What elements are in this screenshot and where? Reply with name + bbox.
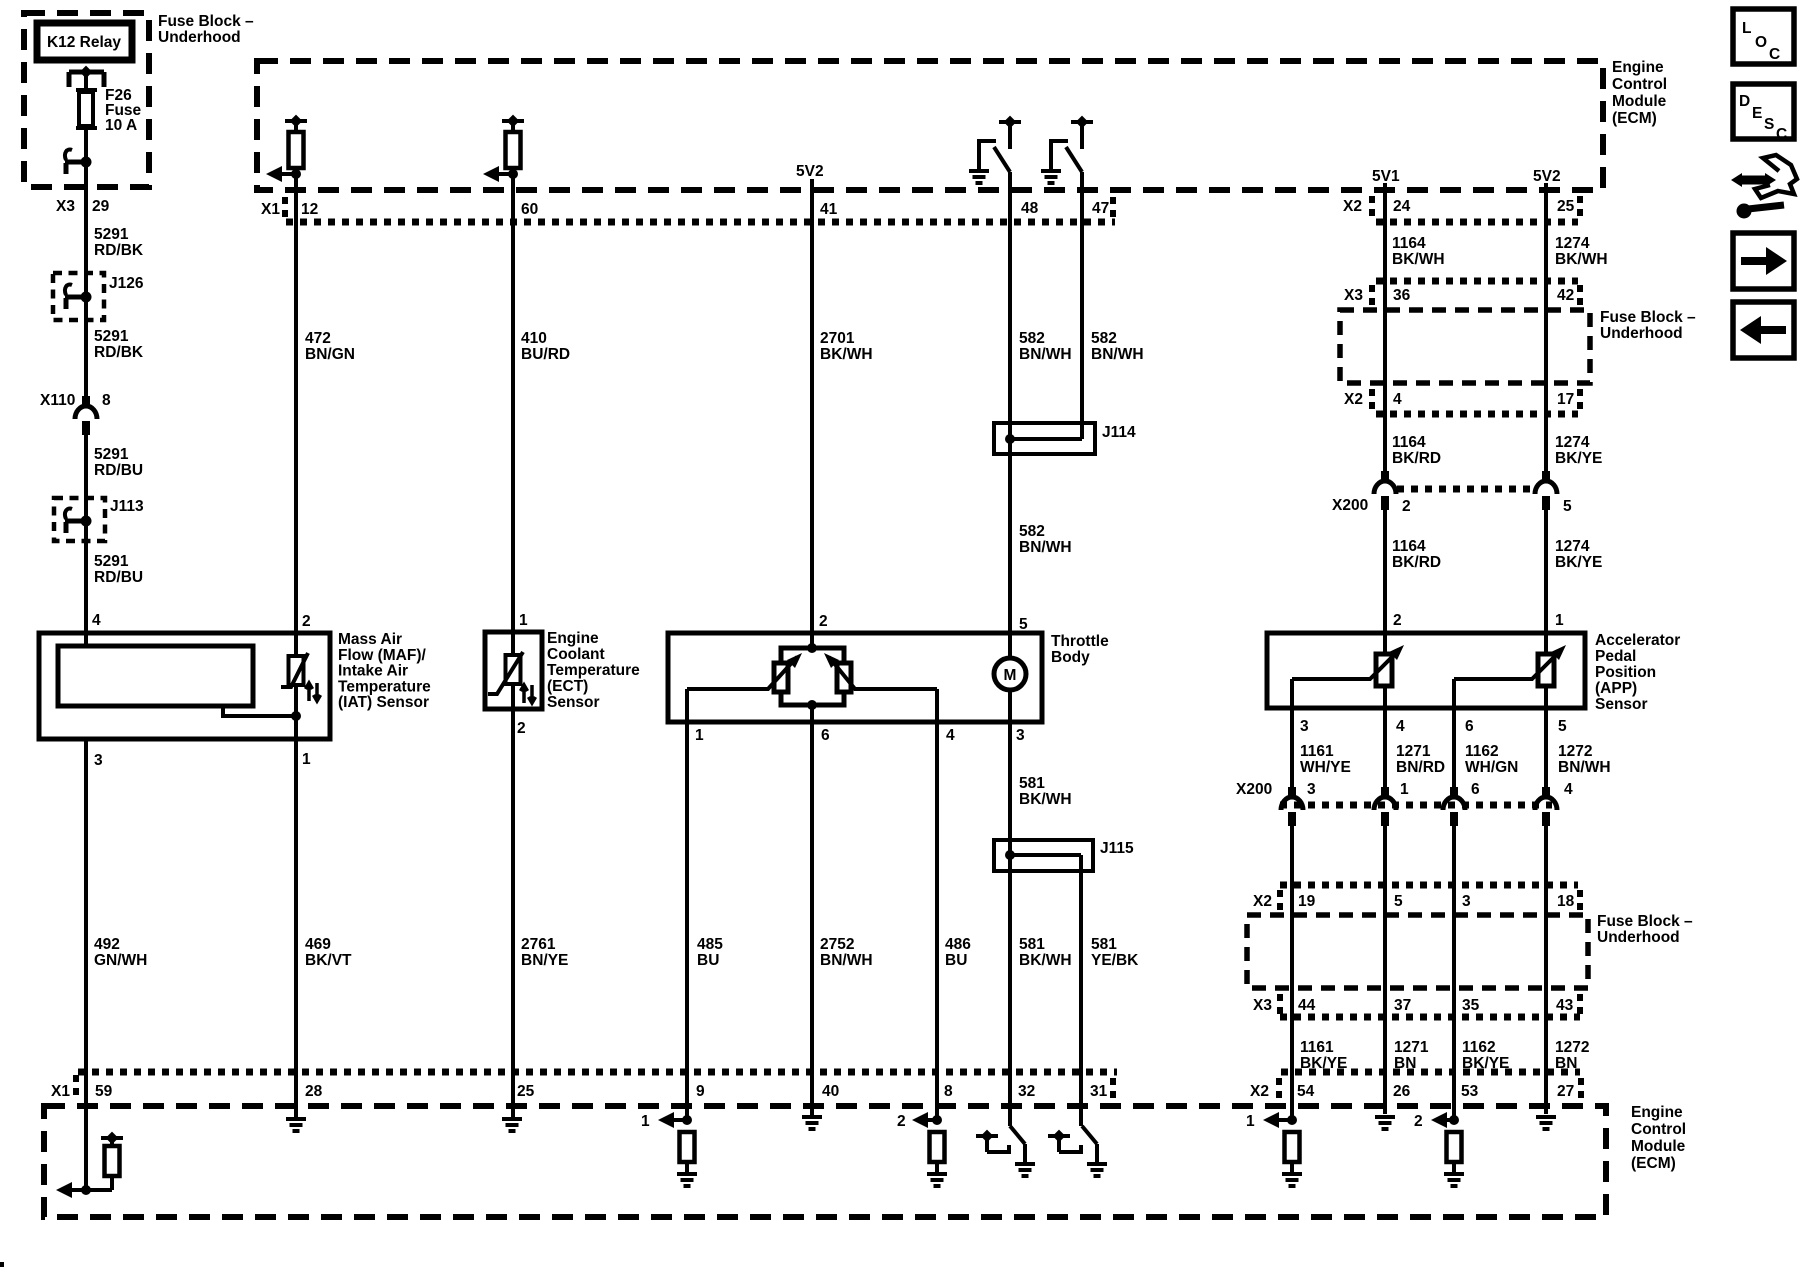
svg-text:GN/WH: GN/WH [94,952,147,969]
svg-text:1272: 1272 [1555,1039,1589,1056]
svg-text:Throttle: Throttle [1051,633,1109,650]
svg-text:J126: J126 [109,275,144,292]
svg-text:6: 6 [821,727,830,744]
svg-text:582: 582 [1019,330,1045,347]
svg-text:28: 28 [305,1083,323,1100]
svg-text:492: 492 [94,936,120,953]
svg-text:Flow (MAF)/: Flow (MAF)/ [338,647,427,664]
svg-text:1: 1 [519,612,528,629]
svg-text:40: 40 [822,1083,839,1100]
svg-text:5291: 5291 [94,226,129,243]
svg-text:BK/WH: BK/WH [1555,251,1608,268]
svg-text:Sensor: Sensor [1595,696,1648,713]
svg-text:J114: J114 [1102,424,1136,441]
svg-text:Underhood: Underhood [1600,325,1683,342]
svg-text:WH/YE: WH/YE [1300,759,1351,776]
svg-text:8: 8 [944,1083,953,1100]
svg-text:J115: J115 [1100,840,1134,857]
svg-text:Body: Body [1051,649,1090,666]
svg-text:X200: X200 [1332,497,1368,514]
svg-text:X2: X2 [1343,198,1362,215]
svg-text:BK/WH: BK/WH [1019,952,1072,969]
svg-text:1162: 1162 [1465,743,1499,760]
svg-text:2: 2 [1414,1113,1423,1130]
svg-text:J113: J113 [110,498,144,515]
svg-text:3: 3 [1462,893,1471,910]
svg-text:27: 27 [1557,1083,1574,1100]
svg-text:K12 Relay: K12 Relay [47,34,121,51]
svg-text:1274: 1274 [1555,235,1590,252]
svg-text:RD/BU: RD/BU [94,462,143,479]
svg-text:BU: BU [945,952,967,969]
svg-text:25: 25 [517,1083,535,1100]
svg-text:1164: 1164 [1392,434,1426,451]
svg-text:26: 26 [1393,1083,1411,1100]
svg-text:BN/GN: BN/GN [305,346,355,363]
svg-text:5V2: 5V2 [1533,168,1561,185]
svg-text:Fuse Block –: Fuse Block – [1600,309,1696,326]
svg-text:60: 60 [521,201,538,218]
svg-text:9: 9 [696,1083,705,1100]
svg-text:4: 4 [1393,391,1402,408]
svg-text:54: 54 [1297,1083,1315,1100]
svg-text:YE/BK: YE/BK [1091,952,1139,969]
svg-text:472: 472 [305,330,331,347]
svg-text:2: 2 [819,613,828,630]
svg-text:3: 3 [1300,718,1309,735]
svg-text:BU/RD: BU/RD [521,346,570,363]
svg-text:(ECM): (ECM) [1631,1155,1676,1172]
svg-text:3: 3 [1016,727,1025,744]
svg-text:BN/WH: BN/WH [1019,539,1072,556]
svg-text:5: 5 [1019,616,1028,633]
svg-text:BK/VT: BK/VT [305,952,352,969]
svg-text:53: 53 [1461,1083,1479,1100]
svg-text:2: 2 [1402,498,1411,515]
svg-text:BN/RD: BN/RD [1396,759,1445,776]
svg-text:X2: X2 [1344,391,1363,408]
svg-text:Control: Control [1612,76,1667,93]
svg-text:BK/YE: BK/YE [1555,450,1602,467]
svg-text:S: S [1764,116,1774,133]
svg-text:1: 1 [1555,612,1564,629]
svg-text:X3: X3 [56,198,75,215]
svg-text:25: 25 [1557,198,1575,215]
svg-text:1: 1 [1400,781,1409,798]
svg-text:X1: X1 [261,201,280,218]
svg-text:5V2: 5V2 [796,163,824,180]
svg-text:RD/BU: RD/BU [94,569,143,586]
svg-text:Underhood: Underhood [1597,929,1680,946]
svg-text:1271: 1271 [1394,1039,1429,1056]
svg-text:2701: 2701 [820,330,855,347]
svg-text:59: 59 [95,1083,113,1100]
svg-text:1161: 1161 [1300,743,1334,760]
svg-text:(APP): (APP) [1595,680,1637,697]
svg-text:5291: 5291 [94,446,129,463]
svg-text:1274: 1274 [1555,434,1590,451]
svg-text:X3: X3 [1253,997,1272,1014]
svg-text:X2: X2 [1250,1083,1269,1100]
svg-text:E: E [1752,105,1762,122]
svg-text:17: 17 [1557,391,1574,408]
svg-text:D: D [1739,93,1750,110]
svg-text:582: 582 [1091,330,1117,347]
svg-text:47: 47 [1092,200,1109,217]
svg-text:Module: Module [1612,93,1667,110]
svg-text:1162: 1162 [1462,1039,1496,1056]
svg-text:35: 35 [1462,997,1480,1014]
svg-text:410: 410 [521,330,547,347]
svg-text:2: 2 [1393,612,1402,629]
svg-text:6: 6 [1471,781,1480,798]
svg-text:5: 5 [1563,498,1572,515]
svg-text:Temperature: Temperature [547,662,640,679]
svg-text:X110: X110 [40,392,75,409]
svg-text:BK/RD: BK/RD [1392,450,1441,467]
svg-text:582: 582 [1019,523,1045,540]
svg-text:BK/RD: BK/RD [1392,554,1441,571]
svg-text:(ECT): (ECT) [547,678,588,695]
svg-text:1164: 1164 [1392,235,1426,252]
svg-text:BK/YE: BK/YE [1555,554,1602,571]
svg-text:4: 4 [1564,781,1573,798]
svg-text:1164: 1164 [1392,538,1426,555]
svg-text:Mass Air: Mass Air [338,631,402,648]
svg-text:M: M [1004,667,1017,684]
svg-text:2: 2 [302,613,311,630]
svg-text:X200: X200 [1236,781,1272,798]
svg-text:Pedal: Pedal [1595,648,1636,665]
svg-text:24: 24 [1393,198,1411,215]
svg-text:1161: 1161 [1300,1039,1334,1056]
svg-text:469: 469 [305,936,331,953]
svg-text:BK/WH: BK/WH [1392,251,1445,268]
svg-text:C: C [1776,126,1787,143]
svg-text:5V1: 5V1 [1372,168,1400,185]
svg-text:3: 3 [1307,781,1316,798]
svg-text:Coolant: Coolant [547,646,605,663]
svg-text:2761: 2761 [521,936,556,953]
svg-text:485: 485 [697,936,723,953]
svg-text:1272: 1272 [1558,743,1592,760]
svg-text:6: 6 [1465,718,1474,735]
svg-text:4: 4 [946,727,955,744]
svg-text:Control: Control [1631,1121,1686,1138]
svg-text:8: 8 [102,392,111,409]
svg-text:581: 581 [1019,775,1045,792]
svg-text:O: O [1755,34,1767,51]
svg-text:Temperature: Temperature [338,678,431,695]
svg-text:2752: 2752 [820,936,854,953]
svg-text:Module: Module [1631,1138,1686,1155]
svg-text:19: 19 [1298,893,1316,910]
svg-text:31: 31 [1090,1083,1108,1100]
svg-text:BN/WH: BN/WH [1091,346,1144,363]
svg-text:1274: 1274 [1555,538,1590,555]
svg-text:44: 44 [1298,997,1316,1014]
svg-text:BK/WH: BK/WH [820,346,873,363]
svg-text:2: 2 [517,720,526,737]
svg-text:Underhood: Underhood [158,29,241,46]
svg-text:RD/BK: RD/BK [94,344,144,361]
svg-text:41: 41 [820,201,838,218]
svg-text:5291: 5291 [94,328,129,345]
svg-text:2: 2 [897,1113,906,1130]
svg-text:(ECM): (ECM) [1612,110,1657,127]
svg-text:1: 1 [641,1113,650,1130]
svg-text:581: 581 [1019,936,1045,953]
svg-text:36: 36 [1393,287,1411,304]
svg-text:Accelerator: Accelerator [1595,632,1680,649]
svg-text:37: 37 [1394,997,1411,1014]
svg-text:X2: X2 [1253,893,1272,910]
svg-text:BN/WH: BN/WH [820,952,873,969]
svg-text:Engine: Engine [1631,1104,1683,1121]
svg-text:X3: X3 [1344,287,1363,304]
svg-text:Fuse Block –: Fuse Block – [1597,913,1693,930]
svg-text:Fuse Block –: Fuse Block – [158,13,254,30]
svg-text:5: 5 [1558,718,1567,735]
svg-text:3: 3 [94,752,103,769]
svg-text:BN/WH: BN/WH [1558,759,1611,776]
svg-text:RD/BK: RD/BK [94,242,144,259]
svg-text:1: 1 [302,751,311,768]
svg-text:L: L [1742,20,1751,37]
svg-text:486: 486 [945,936,971,953]
svg-text:1: 1 [1246,1113,1255,1130]
svg-text:48: 48 [1021,200,1039,217]
svg-text:Position: Position [1595,664,1656,681]
svg-text:1: 1 [695,727,704,744]
svg-text:5: 5 [1394,893,1403,910]
svg-text:Engine: Engine [547,630,599,647]
svg-text:5291: 5291 [94,553,129,570]
svg-text:12: 12 [301,201,318,218]
svg-text:BU: BU [697,952,719,969]
svg-text:BN/WH: BN/WH [1019,346,1072,363]
svg-text:4: 4 [92,612,101,629]
svg-text:BN/YE: BN/YE [521,952,568,969]
svg-text:Sensor: Sensor [547,694,600,711]
svg-text:29: 29 [92,198,110,215]
svg-text:1271: 1271 [1396,743,1431,760]
svg-text:WH/GN: WH/GN [1465,759,1518,776]
svg-text:4: 4 [1396,718,1405,735]
svg-text:Engine: Engine [1612,59,1664,76]
svg-text:10 A: 10 A [105,117,137,134]
svg-text:42: 42 [1557,287,1574,304]
svg-text:BK/WH: BK/WH [1019,791,1072,808]
svg-text:X1: X1 [51,1083,70,1100]
svg-text:(IAT) Sensor: (IAT) Sensor [338,694,429,711]
svg-text:Intake Air: Intake Air [338,663,408,680]
svg-text:581: 581 [1091,936,1117,953]
svg-text:32: 32 [1018,1083,1035,1100]
svg-text:C: C [1769,46,1780,63]
svg-text:18: 18 [1557,893,1575,910]
svg-text:43: 43 [1556,997,1574,1014]
